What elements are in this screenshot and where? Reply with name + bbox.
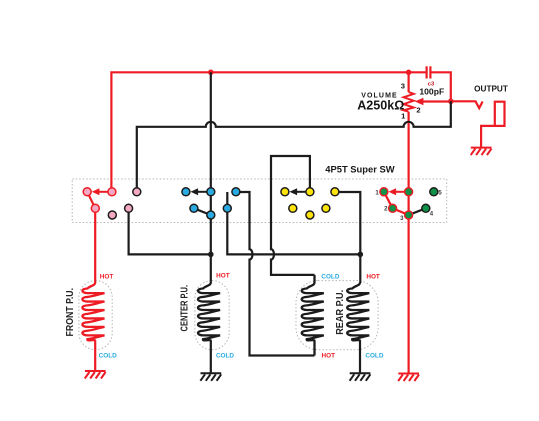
wire red jack sleeve to ground (481, 126, 496, 148)
svg-text:1: 1 (401, 112, 406, 121)
switch pole 2 jumper throw2-throw3 (194, 208, 211, 215)
switch pole 1 throw4 (125, 204, 133, 212)
svg-text:OUTPUT: OUTPUT (474, 85, 508, 94)
ground front pickup (85, 371, 106, 379)
switch pole 2 common (207, 188, 215, 196)
wire black rear junction down to rear right coil hot (359, 254, 361, 283)
switch pole 1 common (108, 188, 116, 196)
switch pole 4 throw3 (405, 211, 413, 219)
switch pole 4 throw4 (422, 204, 430, 212)
svg-text:A250kΩ: A250kΩ (357, 99, 404, 113)
node D black junction center pickup hot (208, 252, 214, 258)
svg-text:COLD: COLD (216, 352, 234, 359)
svg-text:3: 3 (401, 81, 405, 90)
front pickup dotted outline (79, 281, 112, 350)
pickup coil REAR P.U. right bobbin (347, 283, 369, 342)
rear pickup dotted outline (296, 281, 378, 350)
svg-text:HOT: HOT (100, 273, 114, 280)
switch pole 2 throw1 (182, 188, 190, 196)
svg-text:5: 5 (438, 190, 442, 196)
switch pole 2 throw4 (223, 204, 231, 212)
switch pole 3 throw3 (306, 211, 314, 219)
node C red junction output (448, 99, 454, 105)
wire black center pickup cold to ground (210, 341, 212, 373)
switch pole 1 throw3 (108, 211, 116, 219)
svg-text:1: 1 (375, 190, 379, 196)
switch pole 4 jumper throw1-throw2 (384, 192, 393, 209)
switch pole 1 throw5 (133, 188, 141, 196)
svg-text:100pF: 100pF (419, 86, 444, 96)
wire red top rail right of capacitor down to output node (431, 72, 450, 101)
ground pot pole4 common (398, 374, 419, 382)
svg-text:REAR P.U.: REAR P.U. (334, 290, 346, 335)
pickup coil CENTER P.U. (198, 283, 220, 342)
svg-text:3: 3 (400, 216, 404, 222)
svg-text:4: 4 (430, 211, 434, 217)
switch pole 4 jumper throw3-throw4 (409, 208, 426, 215)
svg-text:2: 2 (416, 105, 420, 114)
wire black pole3 throw5 jog down to rear junction (335, 192, 360, 254)
switch pole 2 throw2 (190, 204, 198, 212)
output jack J1 body (495, 102, 505, 126)
switch pole 2 throw3 (207, 211, 215, 219)
ground rear pickup (350, 373, 371, 381)
node E black junction rear right coil hot (358, 252, 364, 258)
wire red pole1 throw2 down to front pickup hot (94, 208, 96, 283)
switch body 4P5T dotted outline (72, 179, 447, 223)
node A red junction rail / pole2 common (208, 70, 214, 76)
wire red wiper to output node with arrow (415, 98, 451, 106)
capacitor C3 plates (427, 66, 431, 78)
switch pole 3 throw1 (281, 188, 289, 196)
switch pole 4 wiper arrow (389, 188, 405, 195)
switch pole 4 throw2 (389, 204, 397, 212)
switch pole 3 throw4 (322, 204, 330, 212)
svg-text:COLD: COLD (365, 352, 383, 359)
svg-text:HOT: HOT (322, 352, 336, 359)
svg-text:HOT: HOT (366, 273, 380, 280)
svg-text:4P5T Super SW: 4P5T Super SW (325, 163, 394, 174)
wire black pole2 common up to rail (210, 72, 212, 192)
svg-text:COLD: COLD (99, 352, 117, 359)
switch pole 3 throw2 (289, 204, 297, 212)
wire black pole2 throw4 to rear junction (227, 192, 360, 254)
switch pole 1 jumper throw1-throw2 (87, 192, 95, 209)
wire black pole1 throw5 to output node with hops (137, 101, 451, 192)
ground center pickup (200, 373, 221, 381)
node B red junction rail / pot pin3 (406, 70, 412, 76)
center pickup dotted outline (195, 281, 229, 350)
switch pole 2 throw5 (232, 188, 240, 196)
switch pole 1 throw1 (83, 188, 91, 196)
svg-text:HOT: HOT (216, 272, 230, 279)
wire black pole3 common up over and down to rear left coil cold with hop (271, 156, 315, 275)
switch pole 4 jumper throw2-throw3 (393, 208, 409, 215)
wire black pole2 throw3 down to center pickup hot (210, 192, 212, 283)
svg-text:COLD: COLD (321, 273, 339, 280)
switch pole 4 common (405, 188, 413, 196)
wire red top rail from pole1 common to capacitor (111, 72, 425, 192)
svg-text:CENTER P.U.: CENTER P.U. (178, 285, 190, 332)
svg-text:FRONT P.U.: FRONT P.U. (64, 288, 76, 337)
pickup coil FRONT P.U. (82, 283, 104, 342)
ground output jack (471, 148, 492, 156)
svg-text:2: 2 (384, 207, 388, 213)
switch pole 1 wiper arrow (92, 188, 108, 195)
switch pole 3 common (306, 188, 314, 196)
switch pole 3 throw5 (331, 188, 339, 196)
switch pole 1 throw2 (91, 204, 99, 212)
pickup coil REAR P.U. left bobbin (302, 275, 324, 356)
wire red pot pin1 down through pole4 common to ground (408, 112, 410, 374)
wire red front pickup cold to ground (94, 341, 96, 371)
wire black rear right coil cold to ground (359, 341, 361, 373)
switch pole 4 throw5 (430, 188, 438, 196)
switch pole 2 wiper arrow (191, 188, 207, 195)
wire black pole2 throw5 jog down to rear left coil hot with hop (236, 192, 315, 356)
switch pole 4 throw1 (380, 188, 388, 196)
wire red pot pin3 branch (408, 72, 410, 92)
resistor VR1 volume zigzag (404, 92, 414, 112)
switch pole 3 wiper arrow (290, 188, 306, 195)
wire red output tip contact (451, 101, 483, 108)
wire black pole1 throw4 to center junction (129, 208, 211, 254)
